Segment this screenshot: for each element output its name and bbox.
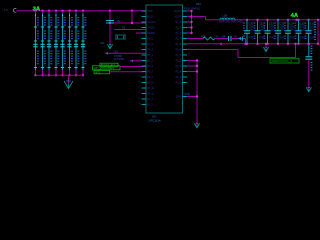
svg-text:P0_6: P0_6 xyxy=(148,66,154,68)
svg-text:P1_8: P1_8 xyxy=(176,44,182,46)
svg-text:P2_6: P2_6 xyxy=(176,83,182,85)
svg-text:X7R: X7R xyxy=(259,37,264,40)
svg-text:P2_4: P2_4 xyxy=(176,72,182,74)
svg-text:P0_5: P0_5 xyxy=(148,61,154,63)
svg-text:16p: 16p xyxy=(117,20,122,23)
svg-text:SWDIO/PIO1_3: SWDIO/PIO1_3 xyxy=(272,59,293,63)
svg-text:X7R: X7R xyxy=(300,37,305,40)
svg-text:P1_1: P1_1 xyxy=(148,105,154,107)
svg-text:VDD: VDD xyxy=(148,11,153,13)
svg-text:16V: 16V xyxy=(300,29,305,32)
svg-text:P1_0: P1_0 xyxy=(148,99,154,101)
svg-text:P0_4: P0_4 xyxy=(148,55,154,57)
svg-text:R38: R38 xyxy=(201,35,206,38)
svg-text:P0_3: P0_3 xyxy=(148,50,154,52)
svg-text:3,3: 3,3 xyxy=(4,8,9,12)
svg-text:X7R: X7R xyxy=(280,37,285,40)
svg-text:16V: 16V xyxy=(310,29,315,32)
svg-text:XTALO: XTALO xyxy=(148,27,156,30)
svg-text:VSS3: VSS3 xyxy=(148,17,155,19)
svg-text:P2_5: P2_5 xyxy=(176,77,182,79)
svg-text:4A: 4A xyxy=(291,13,299,19)
svg-text:P0_9: P0_9 xyxy=(148,83,154,85)
svg-text:P0_8: P0_8 xyxy=(148,77,154,79)
svg-text:3A: 3A xyxy=(33,6,41,12)
svg-text:P2_0: P2_0 xyxy=(176,50,182,52)
svg-text:BOOT: BOOT xyxy=(174,11,181,13)
svg-text:L1B: L1B xyxy=(223,13,228,17)
svg-text:X7R: X7R xyxy=(290,37,295,40)
svg-text:LPC1114: LPC1114 xyxy=(149,119,161,123)
svg-text:P0_7: P0_7 xyxy=(148,72,154,74)
svg-text:P1_6: P1_6 xyxy=(176,33,182,35)
svg-text:XTALIN: XTALIN xyxy=(148,21,156,24)
svg-text:FB1: FB1 xyxy=(196,2,201,6)
svg-text:P2_1: P2_1 xyxy=(176,55,182,57)
svg-text:16V: 16V xyxy=(280,29,285,32)
svg-text:P1_5: P1_5 xyxy=(176,28,182,30)
svg-text:GND: GND xyxy=(176,97,181,99)
svg-text:X7R: X7R xyxy=(269,37,274,40)
svg-text:471: 471 xyxy=(96,70,101,74)
svg-text:16V: 16V xyxy=(269,29,274,32)
svg-text:32k: 32k xyxy=(100,41,105,45)
svg-text:16V: 16V xyxy=(259,29,264,32)
svg-text:16V: 16V xyxy=(249,29,254,32)
svg-text:RESET: RESET xyxy=(148,33,156,35)
svg-text:C30: C30 xyxy=(113,50,118,54)
svg-text:P0_2: P0_2 xyxy=(148,44,154,46)
svg-text:P2_2: P2_2 xyxy=(176,61,182,63)
svg-text:X1: X1 xyxy=(122,25,126,29)
svg-text:P1_7: P1_7 xyxy=(176,39,182,41)
svg-text:P1_4: P1_4 xyxy=(176,22,182,24)
svg-text:P0_10: P0_10 xyxy=(148,88,155,90)
svg-text:BOOT_471: BOOT_471 xyxy=(101,63,116,67)
svg-text:P2_3: P2_3 xyxy=(176,66,182,68)
svg-text:P0_1: P0_1 xyxy=(148,39,154,41)
svg-text:X7R: X7R xyxy=(249,37,254,40)
svg-text:PIO0_8/MISO: PIO0_8/MISO xyxy=(184,7,200,11)
svg-text:16V: 16V xyxy=(290,29,295,32)
svg-text:4k7GND: 4k7GND xyxy=(114,57,124,61)
svg-text:C38: C38 xyxy=(221,35,226,38)
svg-text:P0_11: P0_11 xyxy=(148,94,155,96)
svg-text:CHIP_5V0_SWITCHED: CHIP_5V0_SWITCHED xyxy=(219,21,243,23)
svg-text:GND: GND xyxy=(185,93,191,96)
svg-text:VOUT: VOUT xyxy=(175,17,182,19)
